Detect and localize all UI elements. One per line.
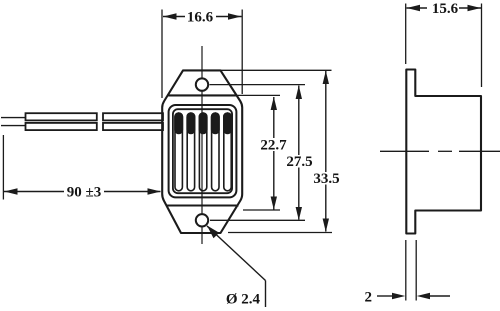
wire insulated bottom (with length break) [26, 123, 164, 130]
dimension 27.5 extension top [210, 84, 306, 86]
dimension text 22.7 [260, 138, 287, 154]
dimension 2 extension line right [415, 240, 417, 301]
dimension 90±3 extension line [2, 135, 4, 200]
dimension text 27.5 [286, 154, 312, 170]
grille slot 5 [224, 113, 231, 191]
svg-text:33.5: 33.5 [313, 171, 339, 187]
mounting hole top [196, 78, 208, 90]
dimension 2 line and arrows [377, 293, 450, 299]
front view body outline [162, 70, 242, 233]
svg-text:16.6: 16.6 [187, 9, 214, 25]
front view bottom fold line [167, 204, 239, 206]
dimension 90±3 line and arrows [4, 188, 161, 194]
dimension 15.6 extension line right [481, 4, 483, 88]
dimension 22.7 extension top [236, 94, 280, 96]
dimension 22.7 extension bottom [243, 209, 280, 211]
wire lead bare top [1, 117, 26, 119]
dimension 16.6 extension line right [241, 10, 243, 95]
svg-text:27.5: 27.5 [286, 154, 312, 170]
grille slot 3 [199, 113, 206, 191]
front view vertical centerline [201, 46, 203, 244]
dimension 33.5 line and arrows [323, 71, 329, 232]
dimension text 2 [365, 290, 373, 306]
grille slot 1 [175, 113, 182, 191]
svg-text:Ø 2.4: Ø 2.4 [226, 292, 261, 308]
dimension 33.5 extension top [221, 69, 332, 71]
svg-text:2: 2 [365, 290, 373, 306]
dimension 22.7 line and arrows [271, 97, 277, 210]
dimension 33.5 extension bottom [228, 232, 332, 234]
grille slot 4 [212, 113, 219, 191]
hole diameter leader arrow [207, 226, 266, 308]
grille outer frame [169, 105, 237, 197]
dimension 15.6 extension line left [405, 4, 407, 65]
dimension text 15.6 [432, 1, 459, 17]
front view top fold line [168, 94, 236, 96]
grille slot 2 [187, 113, 194, 191]
grille inner frame [173, 109, 232, 193]
dimension 27.5 line and arrows [296, 85, 302, 220]
dimension 27.5 extension bottom [210, 219, 305, 221]
svg-text:15.6: 15.6 [432, 1, 459, 17]
dimension 2 extension line left [405, 240, 407, 301]
dimension text 16.6 [187, 9, 214, 25]
mounting hole bottom [196, 214, 208, 226]
wire lead bare bottom [1, 125, 26, 127]
dimension 16.6 extension line left [161, 10, 163, 99]
dimension 15.6 line and arrows [407, 5, 482, 11]
side view outline [406, 70, 481, 234]
dimension text Ø 2.4 [226, 292, 261, 308]
svg-text:22.7: 22.7 [260, 138, 287, 154]
side view horizontal centerline [380, 150, 500, 152]
svg-text:90 ±3: 90 ±3 [67, 185, 101, 201]
dimension 16.6 line and arrows [163, 13, 242, 19]
wire insulated top (with length break) [26, 113, 164, 120]
dimension text 33.5 [313, 171, 339, 187]
dimension text 90 ±3 [67, 185, 101, 201]
